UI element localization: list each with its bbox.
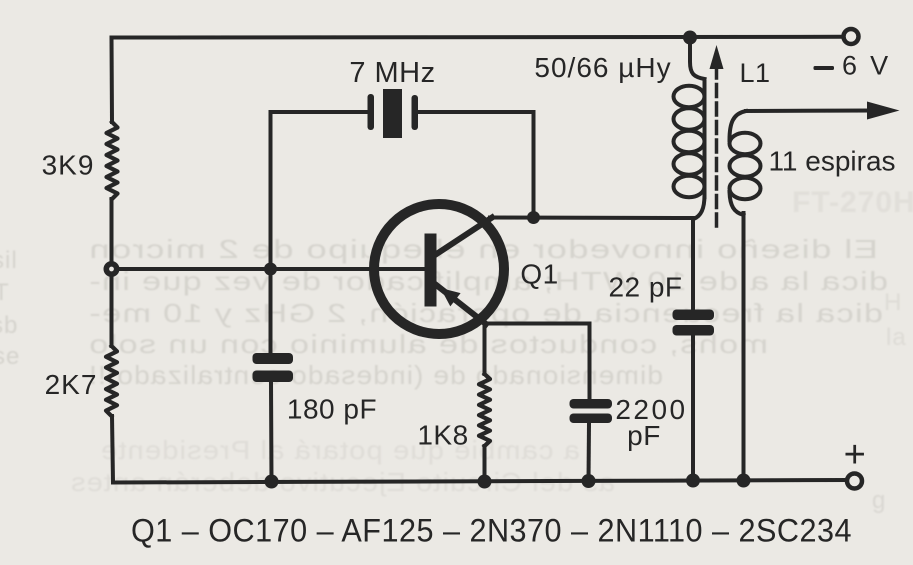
terminal: + output circle xyxy=(847,474,862,489)
junction: 22pF branch on bottom rail xyxy=(686,474,700,488)
svg-text:FT-270H: FT-270H xyxy=(792,186,913,219)
svg-text:6 V: 6 V xyxy=(842,51,891,81)
junction: 1K8 branch on bottom rail xyxy=(478,475,492,489)
svg-text:+: + xyxy=(844,434,867,476)
wire: 2200pF branch vertical upper xyxy=(588,324,592,401)
wire: 2200pF lower lead xyxy=(587,423,592,481)
node: left rail / base junction (ring) xyxy=(106,264,116,274)
svg-text:1K8: 1K8 xyxy=(417,420,468,451)
wire: emitter horizontal xyxy=(485,322,590,326)
wire: secondary down to bottom rail xyxy=(742,213,746,481)
wire: left rail upper segment xyxy=(110,38,115,123)
svg-text:sil: sil xyxy=(0,247,18,274)
svg-text:2K7: 2K7 xyxy=(45,369,98,400)
wire: output wire xyxy=(746,109,872,114)
wire: crystal branch down to collector wire xyxy=(532,112,536,218)
wire: bottom ground rail xyxy=(113,480,847,483)
svg-text:3K9: 3K9 xyxy=(42,150,95,181)
svg-text:11 espiras: 11 espiras xyxy=(768,146,895,177)
wire: left rail middle segment xyxy=(110,199,114,263)
svg-text:se: se xyxy=(0,343,20,370)
junction: 2200pF branch on bottom rail xyxy=(582,474,596,488)
output arrowhead xyxy=(867,102,900,120)
wire: collector to L1 bottom xyxy=(490,216,694,221)
wire: 22pF lower lead xyxy=(691,336,695,481)
transistor Q1 emitter stroke xyxy=(435,284,486,324)
wire: 22pF branch upper lead xyxy=(691,218,695,311)
wire: crystal left lead xyxy=(271,110,368,114)
svg-text:Q1: Q1 xyxy=(520,259,558,290)
inductor L1 primary winding (5 turns) xyxy=(674,86,705,107)
svg-text:sb: sb xyxy=(0,312,18,339)
svg-text:50/66 µHy: 50/66 µHy xyxy=(534,52,671,83)
capacitor C 22pF plates xyxy=(673,310,715,336)
junction: secondary branch on bottom rail xyxy=(737,474,751,488)
crystal X1 7 MHz (plates and slab) xyxy=(368,89,419,138)
resistor R 3K9 xyxy=(107,122,118,199)
wire: 180pF branch upper lead xyxy=(269,269,273,355)
svg-text:la: la xyxy=(886,324,907,351)
svg-text:dimensionado de (indesado cent: dimensionado de (indesado centralizado)!… xyxy=(88,360,663,390)
inductor L1 primary spine xyxy=(703,82,707,197)
wire: left rail lower segment xyxy=(110,275,114,346)
transistor Q1 collector stroke xyxy=(435,218,492,256)
wire: left rail bottom segment xyxy=(112,416,113,483)
inductor L1 secondary bottom lead xyxy=(730,192,744,215)
svg-text:22 pF: 22 pF xyxy=(608,272,682,303)
inductor L1 secondary top lead xyxy=(730,111,747,140)
svg-text:g: g xyxy=(872,487,886,514)
capacitor C 180pF plates xyxy=(253,353,294,382)
junction: crystal branch on base wire xyxy=(264,263,277,276)
svg-text:T: T xyxy=(0,279,10,306)
svg-text:El diseño innovedor en el equi: El diseño innovedor en el equipo de 2 mi… xyxy=(88,234,878,264)
wire: top supply rail xyxy=(112,35,844,40)
junction: top rail / L1 primary xyxy=(683,31,697,45)
resistor R 2K7 xyxy=(106,346,117,416)
svg-text:Q1 – OC170 – AF125 – 2N370 – 2: Q1 – OC170 – AF125 – 2N370 – 2N1110 – 2S… xyxy=(131,513,852,549)
svg-text:H: H xyxy=(884,289,902,316)
transistor Q1 base bar xyxy=(425,234,437,307)
wire: 180pF lower lead xyxy=(269,382,274,482)
wire: crystal right lead xyxy=(418,110,534,114)
svg-text:180 pF: 180 pF xyxy=(287,394,377,425)
resistor R 1K8 xyxy=(479,374,490,446)
svg-text:L1: L1 xyxy=(739,58,770,88)
inductor L1 primary top lead xyxy=(690,40,705,79)
capacitor C 2200pF plates xyxy=(570,399,613,423)
transistor Q1 body circle xyxy=(374,204,504,334)
L1 ferrite core dashed line xyxy=(715,66,719,232)
L1 core tuning arrow xyxy=(710,45,724,69)
label: -6 V xyxy=(814,66,835,70)
junction: 180pF branch on bottom rail xyxy=(265,475,279,489)
svg-text:7 MHz: 7 MHz xyxy=(349,57,435,89)
transistor Q1 emitter arrowhead (PNP, points to base) xyxy=(441,288,461,306)
junction: crystal branch on collector wire xyxy=(527,211,540,224)
terminal: -6V supply circle xyxy=(844,29,859,44)
inductor L1 primary bottom lead xyxy=(694,195,705,219)
svg-text:a cambie que potará al Preside: a cambie que potará al Presidente xyxy=(100,435,580,465)
wire: 1K8 branch upper lead xyxy=(483,324,487,375)
svg-text:pF: pF xyxy=(627,420,661,451)
wire: base wire from left node to Q1 xyxy=(117,267,426,271)
inductor L1 secondary winding (3 turns) xyxy=(730,133,761,154)
wire: crystal branch vertical (base to crystal) xyxy=(269,112,273,269)
wire: 1K8 lower lead xyxy=(483,446,487,482)
